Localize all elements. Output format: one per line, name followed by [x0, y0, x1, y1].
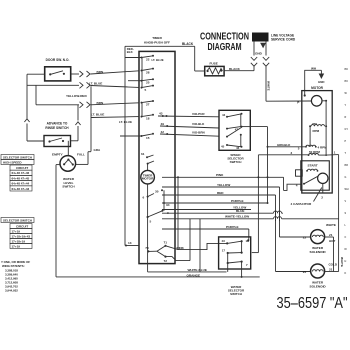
svg-text:COLD: COLD — [329, 262, 338, 266]
svg-text:17+18+19+43: 17+18+19+43 — [12, 234, 31, 238]
svg-text:WHITE-YELLOW: WHITE-YELLOW — [225, 215, 249, 219]
svg-text:FUSE: FUSE — [210, 61, 218, 65]
svg-text:DIAGRAM: DIAGRAM — [208, 41, 242, 53]
svg-text:27: 27 — [146, 103, 150, 107]
svg-text:15: 15 — [146, 136, 150, 140]
svg-text:71: 71 — [164, 241, 168, 245]
svg-text:FULL: FULL — [77, 153, 85, 157]
svg-text:BLACK: BLACK — [229, 67, 241, 71]
svg-text:RPM: RPM — [313, 129, 320, 133]
svg-text:MOTOR: MOTOR — [311, 86, 324, 90]
svg-text:64+48 47+43: 64+48 47+43 — [12, 187, 30, 191]
svg-text:18: 18 — [246, 239, 250, 243]
svg-text:YELLOW: YELLOW — [217, 183, 230, 187]
svg-text:Y: Y — [345, 104, 347, 107]
svg-text:ADVANCE TO: ADVANCE TO — [47, 122, 68, 126]
svg-text:4: 4 — [296, 184, 298, 188]
svg-text:WH: WH — [311, 66, 317, 70]
svg-text:61: 61 — [141, 152, 145, 156]
svg-text:22: 22 — [303, 235, 307, 239]
svg-text:44: 44 — [222, 113, 226, 117]
svg-text:BR: BR — [345, 164, 349, 167]
svg-text:LT. BLUE: LT. BLUE — [91, 113, 104, 117]
svg-text:7: 7 — [246, 263, 248, 267]
svg-text:WHITE: WHITE — [326, 223, 336, 227]
svg-text:EMPTY: EMPTY — [52, 153, 64, 157]
svg-text:DOOR SW. N.O.: DOOR SW. N.O. — [46, 58, 70, 62]
svg-text:20: 20 — [303, 270, 307, 274]
svg-text:CIRCUIT: CIRCUIT — [16, 166, 28, 170]
svg-text:28: 28 — [146, 71, 150, 75]
svg-text:64+48 47+44: 64+48 47+44 — [12, 182, 30, 186]
svg-text:SELECTOR SWITCH: SELECTOR SWITCH — [3, 218, 32, 222]
svg-text:2: 2 — [321, 195, 323, 199]
svg-text:50 RPM: 50 RPM — [309, 150, 320, 154]
svg-text:LT. BLUE: LT. BLUE — [152, 58, 164, 62]
svg-text:WHITE-BLUE: WHITE-BLUE — [188, 268, 207, 272]
svg-text:SELECTOR SWITCH: SELECTOR SWITCH — [3, 155, 32, 159]
svg-text:P: P — [297, 100, 299, 104]
svg-text:S: S — [345, 212, 347, 215]
svg-text:KNOB-PUSH OFF: KNOB-PUSH OFF — [144, 41, 170, 45]
svg-text:RED: RED — [217, 191, 224, 195]
svg-text:SERVICE CORD: SERVICE CORD — [271, 38, 296, 42]
svg-text:17: 17 — [222, 248, 226, 252]
svg-text:5: 5 — [145, 88, 147, 92]
svg-text:45: 45 — [221, 145, 225, 149]
svg-text:3: 3 — [291, 151, 293, 155]
svg-text:SOLENOID: SOLENOID — [310, 250, 327, 254]
svg-text:GND: GND — [255, 52, 263, 56]
svg-text:SWITCH: SWITCH — [230, 292, 242, 296]
svg-text:K: K — [345, 272, 347, 275]
svg-text:755: 755 — [312, 122, 317, 126]
svg-text:21: 21 — [329, 268, 333, 272]
svg-text:18: 18 — [146, 117, 150, 121]
svg-text:6: 6 — [143, 196, 145, 200]
svg-text:R: R — [345, 116, 347, 119]
svg-text:PURPLE: PURPLE — [226, 225, 239, 229]
svg-text:C: C — [345, 236, 347, 239]
svg-text:H: H — [345, 260, 347, 263]
svg-text:34: 34 — [166, 203, 170, 207]
svg-text:25: 25 — [146, 81, 150, 85]
svg-text:TIMER: TIMER — [152, 36, 162, 40]
svg-text:13: 13 — [128, 241, 132, 245]
svg-text:42: 42 — [161, 130, 165, 134]
svg-text:MOTOR: MOTOR — [142, 177, 154, 181]
svg-text:HOT: HOT — [329, 239, 336, 243]
svg-text:M: M — [345, 248, 347, 251]
svg-text:WHITE: WHITE — [267, 81, 271, 91]
svg-text:PINK: PINK — [177, 246, 185, 250]
svg-text:5: 5 — [150, 220, 152, 224]
svg-text:PURPLE: PURPLE — [231, 199, 244, 203]
svg-text:3,944,932: 3,944,932 — [5, 289, 18, 293]
svg-text:30: 30 — [155, 190, 159, 194]
svg-text:V: V — [345, 200, 347, 203]
svg-text:SWITCH: SWITCH — [230, 160, 242, 164]
svg-text:VIO-PUR: VIO-PUR — [192, 112, 205, 116]
svg-text:HIGH SPEED: HIGH SPEED — [3, 160, 22, 164]
svg-text:WHITE: WHITE — [340, 257, 344, 267]
svg-text:BLUE: BLUE — [236, 209, 244, 213]
svg-text:70: 70 — [145, 246, 149, 250]
svg-text:35–6597 "A": 35–6597 "A" — [277, 295, 348, 312]
svg-text:CIRCUIT: CIRCUIT — [16, 224, 28, 228]
svg-text:72: 72 — [164, 259, 168, 263]
svg-text:BLACK: BLACK — [182, 42, 194, 46]
svg-text:GND: GND — [318, 80, 324, 84]
svg-text:YELLOW-RED: YELLOW-RED — [66, 94, 87, 98]
svg-text:ORANGE: ORANGE — [187, 273, 201, 277]
svg-text:L: L — [345, 224, 347, 227]
svg-text:1: 1 — [334, 151, 336, 155]
svg-text:GY: GY — [345, 128, 349, 131]
svg-text:SWITCH: SWITCH — [62, 185, 75, 189]
svg-text:W: W — [345, 92, 348, 95]
svg-text:17+19: 17+19 — [12, 229, 21, 233]
svg-text:17+19: 17+19 — [12, 244, 21, 248]
svg-text:64+48 47+45: 64+48 47+45 — [12, 176, 30, 180]
svg-text:VIO-BLK: VIO-BLK — [192, 122, 205, 126]
svg-text:22: 22 — [146, 58, 150, 62]
svg-text:21: 21 — [329, 233, 333, 237]
svg-text:WH: WH — [345, 188, 349, 191]
svg-text:WING PATENTS:: WING PATENTS: — [2, 264, 25, 268]
svg-text:BU: BU — [345, 80, 349, 83]
svg-text:LT. BLUE: LT. BLUE — [89, 82, 102, 86]
svg-text:P: P — [345, 140, 347, 143]
svg-text:G: G — [345, 176, 347, 179]
svg-text:17+18+19: 17+18+19 — [12, 239, 26, 243]
svg-text:64+48 47+46: 64+48 47+46 — [12, 171, 30, 175]
svg-text:LT. BLUE: LT. BLUE — [119, 120, 132, 124]
svg-text:RINSE SWITCH: RINSE SWITCH — [45, 126, 69, 130]
svg-text:4 CAPACITOR: 4 CAPACITOR — [291, 202, 312, 206]
svg-text:GRN-BLK: GRN-BLK — [277, 143, 291, 147]
svg-text:BLK: BLK — [127, 50, 134, 54]
svg-text:T: T — [345, 152, 347, 155]
svg-text:49: 49 — [161, 122, 165, 126]
svg-text:GRA: GRA — [94, 148, 102, 152]
svg-text:43: 43 — [222, 239, 226, 243]
svg-text:43: 43 — [159, 112, 163, 116]
svg-text:VIO-BRN: VIO-BRN — [192, 131, 205, 135]
svg-text:SOLENOID: SOLENOID — [310, 284, 327, 288]
svg-text:BK: BK — [345, 68, 349, 71]
svg-text:PINK: PINK — [216, 173, 224, 177]
svg-text:START: START — [308, 163, 318, 167]
